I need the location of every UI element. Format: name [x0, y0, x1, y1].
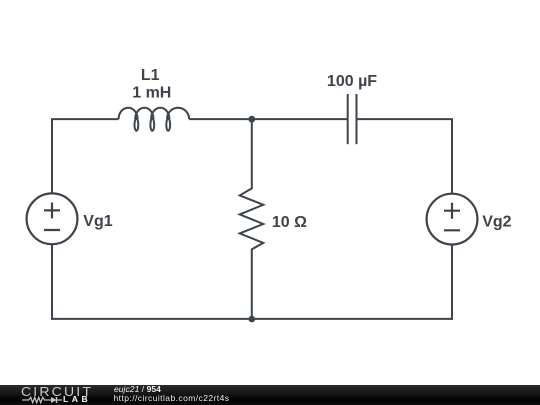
svg-text:1 mH: 1 mH: [132, 84, 171, 101]
svg-text:100 µF: 100 µF: [327, 73, 377, 90]
svg-text:Vg2: Vg2: [482, 213, 511, 230]
svg-text:Vg1: Vg1: [83, 213, 112, 230]
svg-text:L1: L1: [141, 67, 160, 84]
svg-text:10 Ω: 10 Ω: [272, 214, 307, 231]
